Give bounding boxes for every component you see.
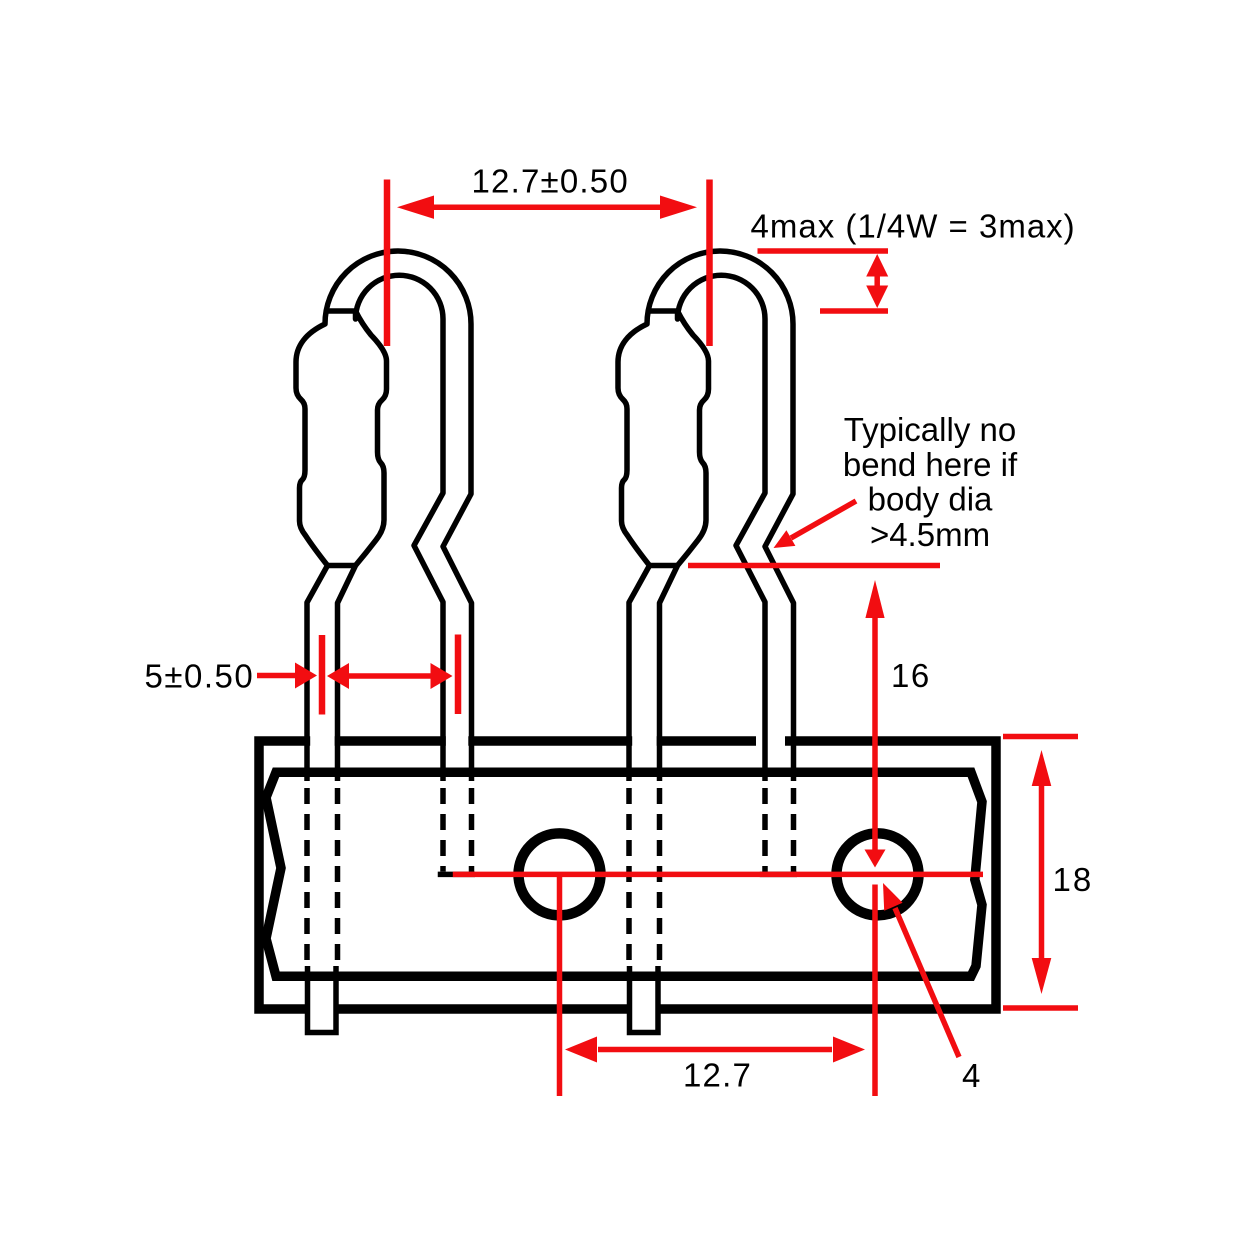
resistor 2 (body + formed leads) xyxy=(618,251,797,970)
reference line at bottom of resistor body xyxy=(688,563,940,569)
tape carrier outer rectangle xyxy=(259,741,996,1009)
dimension 18: down arrowhead xyxy=(1032,958,1052,994)
dimension 18: vertical double arrow xyxy=(1039,778,1045,966)
svg-text:4max (1/4W = 3max): 4max (1/4W = 3max) xyxy=(751,208,1076,245)
svg-text:Typically no: Typically no xyxy=(844,411,1016,448)
lead 1 end tab of resistor 1 below tape xyxy=(308,966,337,1033)
dimension 12.7±0.50: left arrowhead xyxy=(397,196,434,219)
dimension 12.7: right arrowhead xyxy=(833,1037,865,1063)
svg-text:16: 16 xyxy=(891,657,931,694)
white gap of outer tape line behind lead 1 of resistor 2 xyxy=(632,733,657,749)
svg-text:>4.5mm: >4.5mm xyxy=(870,516,990,553)
dimension 4max: down arrowhead xyxy=(866,286,888,309)
dimension 12.7: left arrowhead xyxy=(565,1037,597,1063)
hole diameter 4: leader arrowhead xyxy=(883,883,903,911)
sprocket hole 1 xyxy=(519,833,601,915)
dimension 16: vertical line from body bottom to hole center, extended down xyxy=(872,612,878,852)
dimension 12.7±0.50: right extension line (resistor 2 centerline) xyxy=(706,180,713,347)
white gap of outer tape line behind lead 1 of resistor 1 xyxy=(310,733,335,749)
dimension 5±0.50: double arrow between ticks xyxy=(345,673,434,679)
dimension 5±0.50: right arrowhead xyxy=(431,663,453,689)
resistor 1 (body + formed leads) xyxy=(296,251,475,970)
dimension 18: up arrowhead xyxy=(1032,750,1052,786)
dimension 16: down arrowhead xyxy=(865,850,886,868)
tape carrier inner outline with torn zigzag ends xyxy=(266,772,982,976)
svg-text:bend here if: bend here if xyxy=(843,446,1018,483)
dimension 4max: up arrowhead xyxy=(866,254,888,277)
red centerline through sprocket holes xyxy=(453,872,983,878)
white gap of outer tape line behind return lead of resistor 1 xyxy=(446,733,469,749)
dimension 5±0.50: left tick (lead 1 centerline) xyxy=(319,635,326,715)
annotation leader arrowhead xyxy=(774,530,796,548)
dimension 5±0.50: leader line from text xyxy=(257,673,298,679)
dimension 12.7±0.50: left extension line (resistor 1 centerline) xyxy=(384,180,391,347)
dimension 5±0.50: leader arrowhead xyxy=(295,663,317,689)
svg-text:body dia: body dia xyxy=(868,481,993,518)
annotation leader arrow to lead kink xyxy=(791,501,856,538)
dimension 5±0.50: right tick (return lead centerline) xyxy=(455,635,462,715)
white gap of outer tape line behind return lead of resistor 2 xyxy=(756,733,785,749)
svg-text:12.7±0.50: 12.7±0.50 xyxy=(472,163,629,200)
dimension 4max: vertical double arrow xyxy=(874,270,880,292)
svg-text:12.7: 12.7 xyxy=(683,1057,752,1094)
hole diameter 4: leader arrow line xyxy=(895,908,959,1057)
lead 1 end tab of resistor 2 below tape xyxy=(630,966,659,1033)
dimension 18: bottom tick line xyxy=(1003,1005,1078,1011)
svg-text:18: 18 xyxy=(1053,861,1094,898)
dimension 16: up arrowhead xyxy=(865,580,884,618)
dimension 12.7 (holes pitch): arrow line xyxy=(598,1047,832,1053)
extension line down from hole 2 center xyxy=(872,885,878,1097)
sprocket hole 2 xyxy=(837,833,919,915)
svg-text:4: 4 xyxy=(962,1057,980,1094)
svg-text:5±0.50: 5±0.50 xyxy=(145,658,255,695)
dimension 4max: reference line at top of hairpin bend xyxy=(758,248,889,254)
dimension 5±0.50: left arrowhead xyxy=(327,663,349,689)
dimension 18: top tick line xyxy=(1003,734,1078,740)
dimension 12.7±0.50: arrow line xyxy=(428,204,668,210)
dimension 12.7±0.50: right arrowhead xyxy=(660,196,697,219)
dimension 4max: reference line at top of body xyxy=(820,308,888,314)
extension line down from hole 1 center xyxy=(557,877,563,1096)
